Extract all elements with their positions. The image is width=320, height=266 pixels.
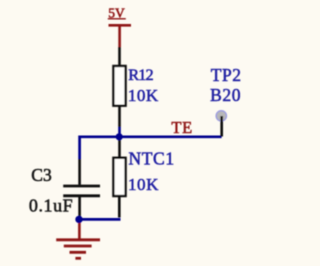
wire: TP2 pad down to node TE wire (220, 116, 223, 137)
svg-text:R12: R12 (128, 65, 153, 84)
svg-text:B20: B20 (210, 85, 241, 105)
wire: R12 pin 2 down to node TE (118, 106, 121, 137)
wire: node TE horizontal to TP2 (118, 135, 222, 138)
svg-text:TE: TE (171, 118, 192, 137)
svg-text:0.1uF: 0.1uF (29, 196, 73, 216)
test point TP2 pad (216, 111, 226, 121)
wire: C3 bottom plate to ground node (78, 197, 81, 217)
net label 5V (108, 6, 126, 21)
junction node TE (116, 133, 123, 140)
svg-text:10K: 10K (128, 86, 159, 105)
svg-text:C3: C3 (31, 165, 52, 185)
svg-text:10K: 10K (128, 175, 159, 194)
wire: node TE left branch to capacitor C3 (80, 137, 119, 185)
power symbol 5V (bar and stub) (109, 25, 132, 47)
wire: 5V stub to R12 pin 1 (118, 47, 121, 66)
wire: node TE to NTC1 pin 1 (118, 137, 121, 158)
ground symbol (56, 219, 100, 258)
svg-text:NTC1: NTC1 (129, 149, 175, 169)
resistor R12 (113, 66, 125, 106)
wire: NTC1 pin 2 down and left to bottom node (79, 196, 121, 219)
capacitor C3 (63, 186, 100, 196)
thermistor NTC1 (113, 158, 125, 196)
svg-text:TP2: TP2 (211, 65, 241, 85)
junction node C3/NTC1/GND (75, 216, 82, 223)
